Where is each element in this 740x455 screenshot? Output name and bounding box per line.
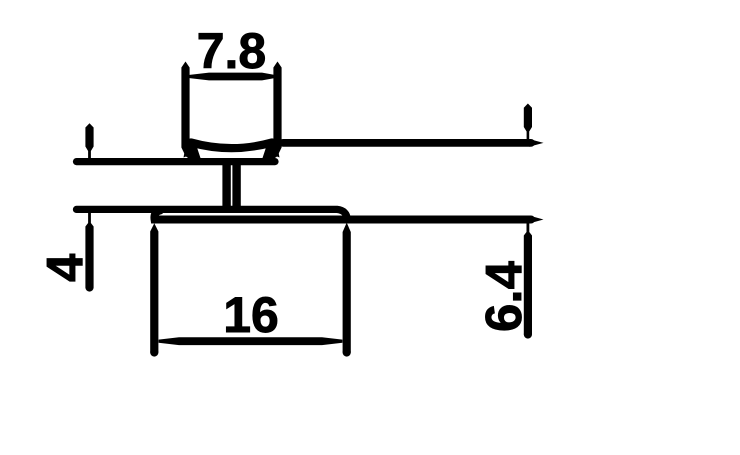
- left panel bottom line / flange top edge: [77, 209, 348, 219]
- extension line right of dim 7.8: [273, 62, 281, 157]
- profile web left edge: [222, 162, 230, 210]
- flange bottom edge / right panel bottom line: [154, 211, 531, 220]
- dim 4 upper arrow (points down to line): [85, 123, 93, 158]
- extension line right of dim 16: [343, 223, 351, 353]
- svg-text:7.8: 7.8: [197, 23, 267, 79]
- profile web right edge: [232, 162, 240, 210]
- right panel bottom line tapered end: [529, 216, 544, 224]
- svg-text:4: 4: [36, 253, 93, 282]
- profile cap left flare: [184, 139, 202, 164]
- dimension line 7.8 with outward arrowheads: [190, 73, 275, 81]
- extension line left of dim 7.8: [181, 62, 189, 157]
- svg-text:6.4: 6.4: [475, 260, 532, 332]
- dim 4 lower arrow (points up to line): [85, 213, 93, 288]
- left panel top line and cap shoulder: [77, 158, 276, 165]
- right panel top line: [283, 139, 531, 147]
- dim 6.4 lower arrow (points up to line): [524, 223, 532, 334]
- right panel top line tapered end: [529, 139, 544, 147]
- dim 6.4 upper arrow (points down to line): [524, 104, 532, 140]
- profile cap top arc: [191, 143, 272, 149]
- dimension line 16 with outward arrowheads: [159, 337, 343, 345]
- extension line left of dim 16: [150, 223, 158, 352]
- svg-text:16: 16: [223, 287, 279, 343]
- profile cap right flare: [262, 139, 280, 164]
